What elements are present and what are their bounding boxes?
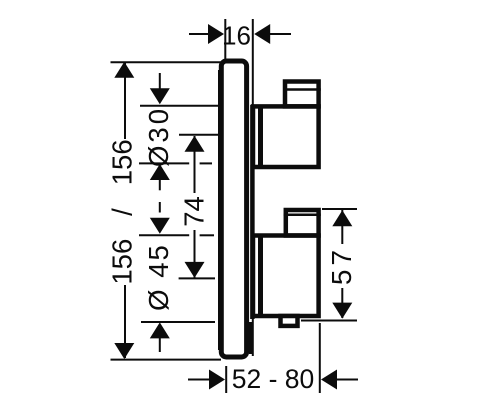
arrow 156 top: [114, 62, 134, 78]
wall plate (side view): [221, 61, 246, 357]
dimension 16: left extension line: [224, 19, 226, 62]
arrow D45 top: [150, 218, 170, 234]
svg-text:Ø 45: Ø 45: [143, 243, 174, 311]
svg-text:156 / 156: 156 / 156: [107, 139, 138, 284]
arrow 16 left: [208, 24, 224, 44]
dimension D45: top extension line left part: [139, 234, 189, 236]
dimension 52-80: right line: [337, 379, 359, 381]
dimension D30: bottom tail dash 1: [159, 179, 161, 190]
arrow 74 top: [185, 136, 205, 152]
arrow 57 top: [332, 210, 352, 226]
svg-text:52 - 80: 52 - 80: [232, 364, 315, 394]
dimension D30: bottom tail dash 2: [159, 202, 161, 213]
dimension 74: line upper segment: [194, 136, 196, 193]
svg-text:16: 16: [222, 20, 251, 50]
arrow 16 right: [254, 24, 270, 44]
dimension 52-80: left line: [188, 379, 209, 381]
dimension 57: bottom extension line: [301, 320, 357, 322]
handle bottom: base step line: [258, 234, 263, 319]
dimension D45: bottom tail: [159, 338, 161, 352]
handle bottom: tab: [281, 316, 298, 326]
dimension D45: top extension line right part: [200, 234, 214, 236]
wire: vertical sleeve line behind handles: [252, 19, 254, 356]
dimension 57: top extension line: [322, 208, 357, 210]
arrow 156 bottom: [114, 343, 134, 359]
arrow 57 bottom: [332, 303, 352, 319]
dimension D30: bottom extension line left part: [139, 162, 189, 164]
arrow D30 top: [150, 88, 170, 104]
dimension 52-80: right extension line: [319, 323, 321, 393]
dimension 74: bottom extension line: [179, 277, 215, 279]
arrow 52-80 left: [209, 370, 225, 390]
wire: plate left edge thickening: [218, 70, 221, 350]
arrow 74 bottom: [185, 262, 205, 278]
dimension 52-80: left extension line: [225, 366, 227, 393]
handle bottom: body: [253, 236, 319, 317]
svg-text:Ø30: Ø30: [143, 106, 174, 167]
dimension 16: right line: [270, 33, 292, 35]
handle top: base step line: [258, 105, 263, 170]
dimension 57: line upper segment: [341, 210, 343, 244]
wire: sleeve thick segment between handles: [250, 105, 255, 319]
dimension 156/156: line lower segment: [124, 285, 126, 358]
dimension 16: left line: [189, 33, 209, 35]
dimension D30: bottom extension line right part: [200, 162, 212, 164]
svg-text:57: 57: [326, 246, 357, 285]
handle bottom: cap step: [286, 210, 319, 236]
dimension D30: top tail: [159, 73, 161, 90]
svg-text:74: 74: [178, 196, 209, 227]
dimension 156/156: line upper segment: [124, 63, 126, 140]
dimension 156/156: bottom extension line: [111, 359, 222, 361]
dimension 74: line lower segment: [194, 230, 196, 278]
dimension D45: bottom extension line: [141, 321, 215, 323]
dimension 57: line lower segment: [341, 288, 343, 318]
handle top: cap inner line: [283, 88, 321, 91]
wire: filler between plate and sleeve below bottom handle: [249, 322, 253, 354]
handle top: cap step: [285, 82, 319, 107]
dimension 156/156: top extension line: [111, 61, 222, 63]
handle bottom: cap inner line: [284, 214, 321, 217]
arrow D30 bottom: [150, 164, 170, 180]
handle top: body: [253, 106, 319, 167]
dimension D30: top extension line: [140, 105, 219, 107]
dimension 74: top extension line: [179, 134, 219, 136]
arrow 52-80 right: [321, 370, 337, 390]
arrow D45 bottom: [150, 322, 170, 338]
